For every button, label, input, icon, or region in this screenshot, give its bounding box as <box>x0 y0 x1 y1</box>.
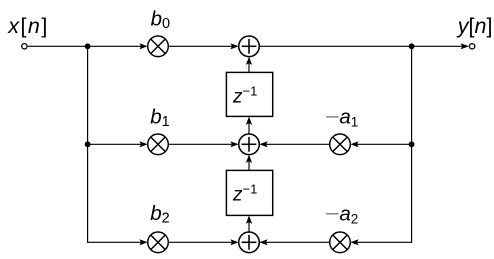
wire: multiplier b2 to adder S3 <box>168 241 232 243</box>
delay Z1 (z^-1 box) <box>226 72 272 116</box>
wire: delay Z2 up to adder S2 <box>248 162 250 171</box>
junction node: row2 left tap <box>85 141 91 147</box>
arrowhead up into adder S2 <box>246 155 252 163</box>
wire: multiplier A2 to adder S3 <box>266 241 330 243</box>
wire: left feed vertical bus <box>88 46 141 242</box>
delay Z2 (z^-1 box) <box>226 170 272 215</box>
wire: multiplier b0 to adder S1 <box>168 45 232 47</box>
wire: multiplier A1 to adder S2 <box>266 143 330 145</box>
wire: row2 feedback tap to multiplier A1 <box>357 143 412 145</box>
arrowhead into multiplier b1 <box>139 141 147 147</box>
multiplier A1 (circle with X) <box>330 134 351 155</box>
multiplier A2 (circle with X) <box>330 232 351 253</box>
multiplier b2 (circle with X) <box>148 232 169 253</box>
arrowhead into adder S3 from left <box>230 239 238 245</box>
adder S2 (circle with plus) <box>239 134 260 155</box>
label -a1 <box>326 116 338 118</box>
arrowhead into multiplier A1 <box>350 141 358 147</box>
svg-text:x[n]: x[n] <box>7 14 49 38</box>
junction node: row2 right tap <box>409 141 415 147</box>
output terminal (open circle) <box>469 44 474 49</box>
arrowhead into multiplier A2 <box>350 239 358 245</box>
adder S3 (circle with plus) <box>239 232 260 253</box>
input terminal (open circle) <box>22 44 27 49</box>
svg-text:y[n]: y[n] <box>456 14 493 38</box>
wire: multiplier b1 to adder S2 <box>168 143 232 145</box>
arrowhead up into delay Z1 <box>246 117 252 125</box>
multiplier b0 (circle with X) <box>148 36 169 57</box>
wire: right feedback vertical bus <box>357 46 412 242</box>
wire: adder S2 up to delay Z1 <box>248 123 250 134</box>
wire: input terminal to multiplier b0 <box>28 45 141 47</box>
arrowhead into multiplier b2 <box>139 239 147 245</box>
arrowhead into multiplier b0 <box>139 43 147 49</box>
wire: row2 tap to multiplier b1 <box>88 143 141 145</box>
junction node: input tap <box>85 43 91 49</box>
arrowhead into adder S2 from left <box>230 141 238 147</box>
arrowhead into adder S1 <box>230 43 238 49</box>
arrowhead into adder S2 from right <box>259 141 267 147</box>
wire: delay Z1 up to adder S1 <box>248 64 250 73</box>
arrowhead into adder S3 from right <box>259 239 267 245</box>
junction node: output tap <box>409 43 415 49</box>
label -a2 <box>326 213 338 215</box>
wire: adder S1 to output terminal <box>259 45 462 47</box>
wire: adder S3 up to delay Z2 <box>248 222 250 232</box>
arrowhead into output terminal <box>461 43 469 49</box>
adder S1 (circle with plus) <box>239 36 260 57</box>
arrowhead up into delay Z2 <box>246 216 252 224</box>
multiplier b1 (circle with X) <box>148 134 169 155</box>
arrowhead up into adder S1 <box>246 57 252 65</box>
